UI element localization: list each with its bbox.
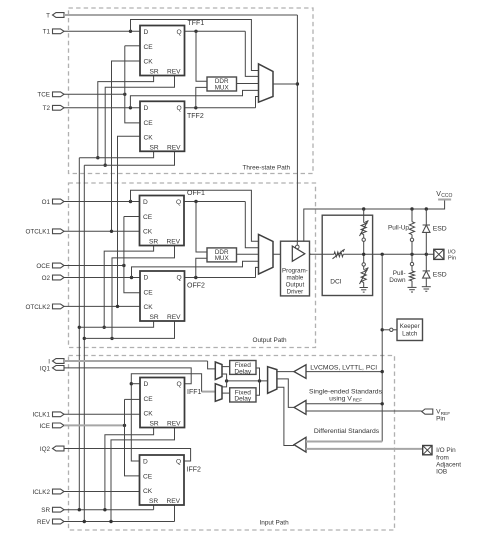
svg-text:Three-state Path: Three-state Path: [243, 164, 291, 171]
svg-text:SR: SR: [150, 421, 159, 428]
svg-text:IQ2: IQ2: [40, 446, 51, 453]
svg-text:mable: mable: [286, 274, 303, 281]
svg-text:TFF1: TFF1: [188, 20, 205, 27]
svg-text:D: D: [144, 381, 149, 388]
svg-text:Q: Q: [176, 199, 181, 206]
svg-text:IQ1: IQ1: [40, 365, 51, 372]
svg-text:OFF2: OFF2: [187, 283, 205, 290]
svg-text:Pin: Pin: [436, 415, 446, 422]
svg-text:Driver: Driver: [287, 288, 304, 295]
svg-text:D: D: [144, 105, 149, 112]
svg-text:OTCLK1: OTCLK1: [26, 229, 51, 236]
svg-text:Pull-: Pull-: [393, 270, 406, 277]
svg-text:CE: CE: [144, 44, 154, 51]
svg-text:IFF2: IFF2: [187, 467, 201, 474]
svg-text:Q: Q: [177, 105, 182, 112]
svg-text:OCE: OCE: [36, 263, 50, 270]
svg-text:Output Path: Output Path: [253, 337, 288, 344]
svg-text:using V: using V: [329, 396, 352, 403]
svg-text:Latch: Latch: [402, 331, 418, 338]
svg-text:Down: Down: [389, 277, 406, 284]
svg-text:O1: O1: [42, 199, 51, 206]
svg-text:REV: REV: [167, 498, 181, 505]
svg-text:SR: SR: [150, 314, 159, 321]
svg-text:CK: CK: [143, 488, 153, 495]
svg-text:CK: CK: [144, 411, 154, 418]
svg-text:REV: REV: [37, 519, 51, 526]
svg-text:ESD: ESD: [433, 272, 447, 279]
svg-text:OFF1: OFF1: [187, 190, 205, 197]
svg-text:Q: Q: [176, 459, 181, 466]
svg-text:ICLK1: ICLK1: [32, 412, 50, 419]
svg-text:Pull-Up: Pull-Up: [388, 224, 409, 231]
svg-text:Adjacent: Adjacent: [436, 461, 461, 468]
svg-text:D: D: [144, 29, 149, 36]
svg-text:SR: SR: [150, 69, 159, 76]
svg-text:REV: REV: [167, 421, 181, 428]
svg-text:Delay: Delay: [234, 368, 252, 375]
svg-text:T1: T1: [43, 29, 51, 36]
svg-text:CK: CK: [143, 229, 153, 236]
svg-text:ICLK2: ICLK2: [32, 489, 50, 496]
svg-text:CE: CE: [144, 290, 154, 297]
svg-text:ICE: ICE: [40, 423, 51, 430]
svg-text:IFF1: IFF1: [187, 389, 201, 396]
svg-text:ESD: ESD: [433, 225, 447, 232]
svg-text:LVCMOS, LVTTL, PCI: LVCMOS, LVTTL, PCI: [310, 365, 377, 372]
svg-text:Q: Q: [177, 275, 182, 282]
svg-text:Delay: Delay: [234, 396, 252, 403]
svg-text:SR: SR: [149, 239, 158, 246]
svg-text:Differential Standards: Differential Standards: [314, 428, 380, 435]
svg-text:CK: CK: [144, 135, 154, 142]
svg-text:TFF2: TFF2: [187, 113, 204, 120]
svg-text:D: D: [143, 459, 148, 466]
svg-text:D: D: [143, 199, 148, 206]
svg-text:CE: CE: [144, 120, 154, 127]
svg-text:MUX: MUX: [215, 255, 230, 262]
svg-text:REV: REV: [167, 69, 181, 76]
svg-text:Program-: Program-: [282, 267, 308, 274]
svg-text:Input Path: Input Path: [260, 519, 290, 526]
svg-text:CE: CE: [144, 396, 154, 403]
svg-text:Q: Q: [177, 29, 182, 36]
svg-text:OTCLK2: OTCLK2: [26, 304, 51, 311]
svg-text:T2: T2: [43, 105, 51, 112]
svg-text:REV: REV: [167, 144, 181, 151]
svg-text:Pin: Pin: [448, 255, 456, 261]
svg-text:CE: CE: [143, 214, 153, 221]
svg-text:Q: Q: [177, 381, 182, 388]
svg-text:CE: CE: [143, 474, 153, 481]
svg-text:SR: SR: [150, 144, 159, 151]
svg-text:CK: CK: [144, 304, 154, 311]
svg-text:CK: CK: [144, 59, 154, 66]
svg-text:CCO: CCO: [441, 193, 452, 199]
svg-text:REV: REV: [167, 314, 181, 321]
svg-text:Keeper: Keeper: [400, 323, 420, 330]
svg-text:Single-ended Standards: Single-ended Standards: [309, 389, 383, 396]
svg-text:IOB: IOB: [436, 469, 447, 476]
svg-text:REF: REF: [353, 398, 363, 404]
svg-text:SR: SR: [149, 498, 158, 505]
svg-text:Output: Output: [286, 281, 305, 288]
svg-text:TCE: TCE: [37, 92, 50, 99]
svg-text:T: T: [46, 12, 50, 19]
svg-text:I/O Pin: I/O Pin: [436, 447, 456, 454]
svg-text:MUX: MUX: [215, 84, 230, 91]
svg-text:O2: O2: [42, 275, 51, 282]
svg-text:SR: SR: [41, 507, 50, 514]
svg-text:REV: REV: [167, 239, 181, 246]
svg-text:from: from: [436, 454, 449, 461]
svg-text:D: D: [144, 275, 149, 282]
svg-text:DCI: DCI: [330, 279, 342, 286]
